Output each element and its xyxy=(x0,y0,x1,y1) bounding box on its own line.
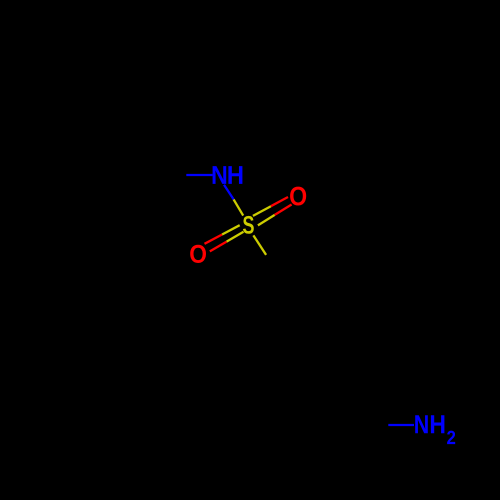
subscript 2 of NH2 xyxy=(447,431,455,445)
letter N of NH xyxy=(213,166,227,184)
wire: S=O2 double bond line C red half xyxy=(205,235,223,244)
wire: S=O1 double bond line A yellow half xyxy=(253,206,271,216)
letter H of NH xyxy=(228,166,242,184)
letter O (oxygen O1) xyxy=(290,187,306,206)
wire: S=O2 double bond line D red half xyxy=(210,242,227,252)
wire: S=O1 double bond line B yellow half xyxy=(258,215,275,226)
wire: bond CH2-NH2 blue half xyxy=(388,424,414,426)
letter S (sulfur) xyxy=(243,216,254,234)
wire: bond CH3-N (blue half, methyl to amine N) xyxy=(186,174,212,176)
letter H of NH2 xyxy=(431,415,445,433)
wire: bond S-CH3 yellow half xyxy=(253,235,266,255)
wire: S=O1 double bond line B red half xyxy=(275,205,292,215)
wire: S=O1 double bond line A red half xyxy=(271,197,288,206)
wire: bond N-S yellow half xyxy=(234,199,244,215)
letter O (oxygen O2) xyxy=(190,245,206,263)
wire: bond N-S blue half xyxy=(224,185,234,200)
wire: S=O2 double bond line D yellow half xyxy=(227,232,244,242)
letter N of NH2 xyxy=(415,415,428,433)
wire: S=O2 double bond line C yellow half xyxy=(222,225,240,234)
